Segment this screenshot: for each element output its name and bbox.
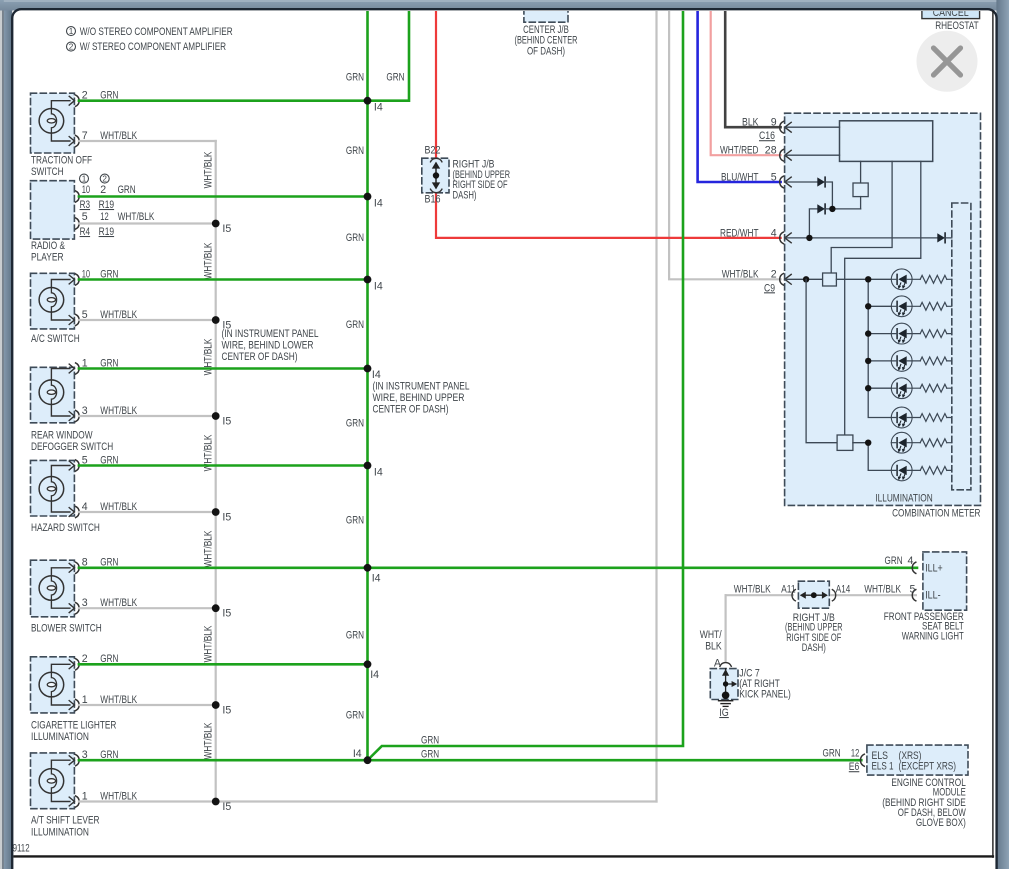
svg-text:5: 5 [771,171,777,183]
lamp bulb CIG [39,672,64,697]
svg-text:WHT/BLK: WHT/BLK [202,339,214,376]
front passenger seat belt warning light box [923,552,967,610]
switch AC: dashed box [31,273,75,329]
window chrome: top steel-blue band [0,0,1009,11]
svg-text:COMBINATION METER: COMBINATION METER [892,508,981,520]
lamp bulb HAZARD [39,477,64,502]
svg-text:B16: B16 [425,194,441,206]
wire GRN row y=664.3 [79,663,368,666]
junction I4 at y=368.5 [364,365,372,373]
meter pin 4 RED/WHT [785,233,791,243]
engine control module box [867,745,968,775]
wire WHT/BLK seat belt row left segment [726,594,793,596]
svg-text:GRN: GRN [118,184,136,196]
window chrome: outer left grey strip [0,0,2,869]
LED 5 with resistor [868,387,891,389]
svg-text:(IN INSTRUMENT PANEL: (IN INSTRUMENT PANEL [373,381,470,393]
pin 2 connector [69,96,74,105]
pin 10 connector [69,275,74,284]
svg-text:WHT/BLK: WHT/BLK [202,531,214,568]
svg-text:WHT/BLK: WHT/BLK [722,269,759,281]
svg-text:GRN: GRN [346,710,364,722]
LED 7 with resistor [865,440,871,446]
svg-text:A/C SWITCH: A/C SWITCH [31,333,80,345]
svg-text:KICK PANEL): KICK PANEL) [739,688,791,700]
svg-text:(EXCEPT XRS): (EXCEPT XRS) [899,761,957,773]
svg-text:I4: I4 [374,467,383,479]
pin 4 connector [69,508,74,517]
radio pin connectors (arcs only) [76,191,80,202]
svg-text:PLAYER: PLAYER [31,252,64,264]
svg-text:E6: E6 [849,761,860,773]
meter internal: BLK lead [785,126,840,128]
junction I5 at y=223.5 [212,220,220,228]
window chrome: left steel-blue band [4,0,12,869]
internal wiring [51,760,70,768]
wire RED/WHT vertical upper part [435,10,437,159]
center J/B connector box (clipped at top) [524,1,568,22]
pin 2 connector [69,660,74,669]
svg-text:ILL+: ILL+ [925,562,943,574]
svg-text:WHT/BLK: WHT/BLK [202,152,214,189]
svg-text:A11: A11 [781,583,796,595]
svg-text:GRN: GRN [346,515,364,527]
switch CIG: dashed box [31,657,75,713]
internal wiring [51,466,70,477]
svg-text:R19: R19 [99,199,115,211]
lamp bulb BLOWER [39,576,64,601]
J/C 7 junction connector box [710,669,738,700]
svg-text:ILLUMINATION: ILLUMINATION [875,493,932,505]
svg-text:GRN: GRN [346,418,364,430]
lamp bulb AC [39,288,64,313]
svg-text:I4: I4 [372,369,381,381]
pin 5 connector [69,461,74,470]
wire WHT/BLK seat belt row right segment [831,594,916,596]
svg-text:WIRE, BEHIND LOWER: WIRE, BEHIND LOWER [222,340,314,352]
svg-text:A/T SHIFT LEVER: A/T SHIFT LEVER [31,815,100,827]
connector B22/B16 RIGHT J/B box [422,158,449,193]
connector arc ILL- [912,590,916,601]
meter internal: BLU/WHT diode branch [785,181,818,183]
wire WHT/BLK row y=608.2 [79,607,216,609]
switch DEFOG: dashed box [31,367,75,423]
svg-text:ILLUMINATION: ILLUMINATION [31,731,89,743]
wire GRN second top vertical [368,10,410,101]
diagram sheet right border [992,10,994,857]
wire WHT/BLK drop to J/C 7 [724,595,726,661]
cancel rheostat box (clipped at top) [922,1,980,19]
wire GRN row y=465.5 [79,464,368,467]
junction I4 at y=567.8 [364,564,372,572]
svg-text:GRN: GRN [421,749,439,761]
connector arc E6 [860,754,864,766]
svg-text:I5: I5 [222,223,231,235]
svg-text:I5: I5 [222,705,231,717]
meter internal: staircase wire to second resistor box [845,161,921,435]
switch HAZARD: dashed box [31,460,75,516]
wire WHT/BLK I5 bus vertical [215,141,217,802]
svg-text:W/O STEREO COMPONENT AMPLIFIER: W/O STEREO COMPONENT AMPLIFIER [80,26,233,38]
svg-text:C16: C16 [759,130,775,142]
meter main block rectangle [840,121,933,162]
pin 3 connector [69,412,74,421]
wire WHT/BLK row y=416.0 [79,415,216,417]
internal wiring [51,369,70,380]
junction I5 at y=608.2 [212,604,220,612]
svg-text:9112: 9112 [13,842,30,854]
pin 8 connector [69,563,74,572]
connector arc A (top of J/C 7) [720,663,731,667]
junction I5 at y=320.0 [212,316,220,324]
LED 1 with resistor [868,278,891,280]
svg-text:1: 1 [69,27,74,36]
legend note 1: W/O STEREO COMPONENT AMPLIFIER [67,27,76,36]
svg-text:RADIO &: RADIO & [31,240,65,252]
svg-text:DEFOGGER SWITCH: DEFOGGER SWITCH [31,441,113,453]
wire WHT/RED vertical to meter pin 28 [711,10,781,155]
svg-text:GRN: GRN [386,72,404,84]
meter internal: RED/WHT row with diode into illumination box [785,237,938,239]
svg-text:2: 2 [100,184,106,196]
meter pin 2 WHT/BLK [785,274,791,284]
junction I4 at y=664.3 [364,660,372,668]
svg-text:4: 4 [771,227,777,239]
pin 7 connector [69,137,74,146]
svg-text:GRN: GRN [346,319,364,331]
svg-text:WHT/BLK: WHT/BLK [118,211,155,223]
svg-text:I4: I4 [372,573,381,585]
svg-text:GRN: GRN [823,748,841,760]
svg-text:SWITCH: SWITCH [31,166,64,178]
svg-text:A14: A14 [836,583,851,595]
svg-text:R3: R3 [80,199,91,211]
svg-text:I4: I4 [374,102,383,114]
svg-text:WIRE, BEHIND UPPER: WIRE, BEHIND UPPER [373,392,465,404]
switch TRACTION: dashed box [31,93,75,153]
svg-text:ILL-: ILL- [925,590,941,602]
meter internal: WHT/RED lead [785,154,840,156]
pin 1 connector [69,364,74,373]
svg-text:5: 5 [82,211,88,223]
radio circled variant numbers [80,174,89,183]
wire WHT/BLK row y=512.0 [79,511,216,513]
combination meter dashed box [785,113,981,505]
wire WHT/BLK A/T row (to far right vertical) [79,800,657,802]
svg-text:1: 1 [82,175,87,184]
svg-text:BLOWER SWITCH: BLOWER SWITCH [31,623,102,635]
meter pin 5 BLU/WHT [785,177,791,187]
svg-text:I5: I5 [222,608,231,620]
svg-text:WARNING LIGHT: WARNING LIGHT [902,630,964,642]
svg-text:WHT/BLK: WHT/BLK [202,626,214,663]
svg-text:BLU/WHT: BLU/WHT [721,171,759,183]
switch AT: dashed box [31,753,75,809]
svg-text:I5: I5 [222,512,231,524]
junction I4 at y=196.5 [364,193,372,201]
wire GRN row y=368.5 [79,367,368,370]
svg-text:GRN: GRN [421,735,439,747]
wire GRN row y=196.5 [79,195,368,198]
junction I4 at y=760.2 [364,756,372,764]
pin 3 connector [69,604,74,613]
svg-text:GRN: GRN [885,555,903,567]
internal wiring [51,101,70,109]
window chrome: right steel-blue band [996,0,1009,869]
wire GRN row y=567.8 [79,566,917,569]
wire WHT/BLK traction row [79,140,216,142]
junction I5 at y=416.0 [212,412,220,420]
svg-text:R4: R4 [80,226,91,238]
junction I4 at y=279.5 [364,276,372,284]
svg-text:B22: B22 [425,145,441,157]
svg-text:GRN: GRN [346,145,364,157]
svg-text:HAZARD SWITCH: HAZARD SWITCH [31,522,100,534]
junction I5 at y=801.5 [212,798,220,806]
wire GRN row y=279.5 [79,278,368,281]
legend note 2: W/ STEREO COMPONENT AMPLIFIER [67,42,76,51]
svg-text:9: 9 [771,117,777,129]
wire WHT/BLK row y=705.0 [79,704,216,706]
svg-text:I4: I4 [374,198,383,210]
illumination inner dashed box [952,203,971,490]
svg-text:C9: C9 [764,282,775,294]
svg-text:DASH): DASH) [453,189,477,201]
svg-text:12: 12 [100,211,108,223]
switch BLOWER: dashed box [31,560,75,617]
wire WHT/BLK second tall vertical to meter C9 [669,10,781,279]
svg-text:ILLUMINATION: ILLUMINATION [31,826,89,838]
pin 3 connector [69,756,74,765]
internal wiring [51,568,70,576]
svg-text:OF DASH): OF DASH) [527,45,565,57]
svg-text:DASH): DASH) [802,642,826,654]
internal wiring [51,664,70,672]
meter internal: left drop to resistor box 2 [806,279,837,442]
ground dot and IG ground symbol [722,692,730,700]
LED 8 with resistor [891,460,912,481]
junction I4 at y=465.5 [364,462,372,470]
svg-text:WHT/BLK: WHT/BLK [864,583,901,595]
svg-text:A: A [714,658,722,670]
svg-text:(IN INSTRUMENT PANEL: (IN INSTRUMENT PANEL [222,328,319,340]
svg-text:ELS 1: ELS 1 [872,761,894,773]
wire WHT/BLK tall vertical (to A/T row far right) [655,10,657,802]
svg-text:5: 5 [909,583,915,595]
svg-text:BLK: BLK [742,117,759,129]
meter internal: second diode branch [809,209,817,238]
svg-text:28: 28 [765,145,777,157]
svg-text:GLOVE BOX): GLOVE BOX) [916,817,966,829]
svg-text:I5: I5 [222,801,231,813]
LED 2 with resistor [868,305,891,307]
svg-text:CENTER OF DASH): CENTER OF DASH) [222,351,298,363]
svg-text:WHT/RED: WHT/RED [720,145,759,157]
meter internal: staircase wire to first resistor box [831,161,892,273]
connector A11/A14 RIGHT J/B box [798,581,829,608]
lamp bulb TRACTION [39,109,64,134]
svg-text:WHT/BLK: WHT/BLK [202,723,214,760]
svg-text:RHEOSTAT: RHEOSTAT [935,20,979,32]
connector arc ILL+ [912,562,916,573]
pin 1 connector [69,701,74,710]
junction I4 at y=100.7 [364,97,372,105]
svg-text:TRACTION OFF: TRACTION OFF [31,155,93,167]
LED 3 with resistor [868,333,891,335]
LED 6 with resistor [891,407,912,428]
wire BLU/WHT vertical to meter pin 5 [698,10,781,182]
diagram sheet bottom border [13,855,993,857]
svg-text:CENTER OF DASH): CENTER OF DASH) [373,404,449,416]
svg-text:R19: R19 [99,226,115,238]
svg-text:WHT/BLK: WHT/BLK [202,243,214,280]
svg-text:IG: IG [719,707,729,719]
wire RED/WHT lower part to meter pin 4 [436,193,781,238]
switch RADIO: dashed box [31,181,75,239]
wire GRN row y=760.2 [79,759,861,762]
svg-text:WHT/BLK: WHT/BLK [734,583,771,595]
wire WHT/BLK row y=223.5 [79,222,216,224]
lamp bulb DEFOG [39,380,64,405]
svg-text:2: 2 [102,175,107,184]
wire GRN main bus vertical [366,10,369,760]
svg-text:BLK: BLK [705,640,722,652]
wire BLK vertical to meter pin 9 [725,10,780,127]
svg-text:12: 12 [851,748,859,760]
meter internal: LED bus 2 [868,443,891,471]
meter pin 28 WHT/RED [785,150,791,160]
meter internal: WHT/BLK row, resistor box 1 [785,278,823,280]
wire GRN far-right vertical to A/T row (with diagonal) [368,10,684,760]
svg-text:I5: I5 [222,416,231,428]
svg-text:2: 2 [69,43,74,52]
svg-text:I4: I4 [370,669,379,681]
svg-text:WHT/: WHT/ [700,629,722,641]
svg-text:GRN: GRN [346,72,364,84]
svg-text:2: 2 [771,269,777,281]
junction I5 at y=512.0 [212,508,220,516]
lamp bulb AT [39,769,64,794]
svg-text:I4: I4 [353,748,362,760]
svg-text:RED/WHT: RED/WHT [720,227,759,239]
pin 5 connector [69,316,74,325]
pin 1 connector [69,797,74,806]
close button [917,31,978,92]
svg-text:GRN: GRN [346,232,364,244]
LED 4 with resistor [868,360,891,362]
wire WHT/BLK row y=320.0 [79,319,216,321]
svg-text:GRN: GRN [346,630,364,642]
svg-text:I4: I4 [374,281,383,293]
svg-text:10: 10 [82,184,90,196]
meter internal: small box under block [860,161,862,183]
internal wiring [51,280,70,288]
svg-text:CIGARETTE LIGHTER: CIGARETTE LIGHTER [31,720,117,732]
right arrow inside J/C 7 [726,683,734,685]
meter pin 9 BLK [785,122,791,132]
meter internal: LED bus 1 [868,279,891,417]
wire GRN row y=100.7 [79,99,368,102]
svg-text:REAR WINDOW: REAR WINDOW [31,430,93,442]
svg-text:W/ STEREO COMPONENT AMPLIFIER: W/ STEREO COMPONENT AMPLIFIER [80,41,227,53]
junction I5 at y=705.0 [212,701,220,709]
